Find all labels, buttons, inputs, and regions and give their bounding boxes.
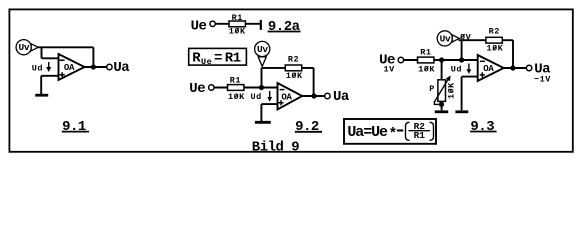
svg-text:OA: OA: [483, 64, 494, 74]
svg-text:10K: 10K: [228, 92, 245, 102]
svg-text:10K: 10K: [486, 44, 503, 54]
svg-text:R1: R1: [230, 75, 241, 85]
svg-text:Ua=Ue: Ua=Ue: [347, 124, 388, 141]
svg-text:Ud: Ud: [251, 92, 262, 102]
svg-text:Uv: Uv: [18, 42, 29, 53]
svg-text:10K: 10K: [286, 71, 303, 81]
svg-text:Uv: Uv: [257, 44, 268, 55]
svg-text:Ua: Ua: [113, 60, 130, 76]
svg-text:R: R: [192, 50, 201, 66]
svg-text:9.3: 9.3: [470, 119, 494, 135]
svg-text:Ue: Ue: [191, 19, 207, 35]
svg-text:OA: OA: [281, 93, 292, 103]
svg-text:Ua: Ua: [333, 89, 350, 105]
svg-text:R1: R1: [232, 13, 243, 23]
svg-text:R2: R2: [288, 54, 299, 64]
svg-text:=: =: [214, 50, 222, 66]
svg-text:9.2: 9.2: [295, 119, 319, 135]
svg-text:−1V: −1V: [534, 74, 551, 84]
svg-text:R1: R1: [420, 48, 431, 58]
svg-text:Ud: Ud: [451, 65, 462, 75]
svg-text:10K: 10K: [418, 64, 435, 74]
svg-text:P: P: [429, 84, 435, 94]
svg-text:R1: R1: [414, 130, 426, 141]
svg-text:Bild 9: Bild 9: [252, 139, 300, 155]
svg-text:R2: R2: [489, 26, 500, 36]
svg-text:OA: OA: [64, 63, 75, 73]
svg-text:Uv: Uv: [440, 33, 451, 44]
svg-text:10K: 10K: [229, 26, 246, 36]
svg-text:R1: R1: [225, 50, 241, 66]
svg-text:Ue: Ue: [201, 57, 212, 67]
svg-text:Ue: Ue: [189, 81, 205, 97]
svg-text:10K: 10K: [446, 82, 456, 99]
svg-text:*: *: [388, 126, 396, 143]
svg-text:Ud: Ud: [32, 64, 43, 74]
svg-text:1V: 1V: [384, 64, 396, 74]
